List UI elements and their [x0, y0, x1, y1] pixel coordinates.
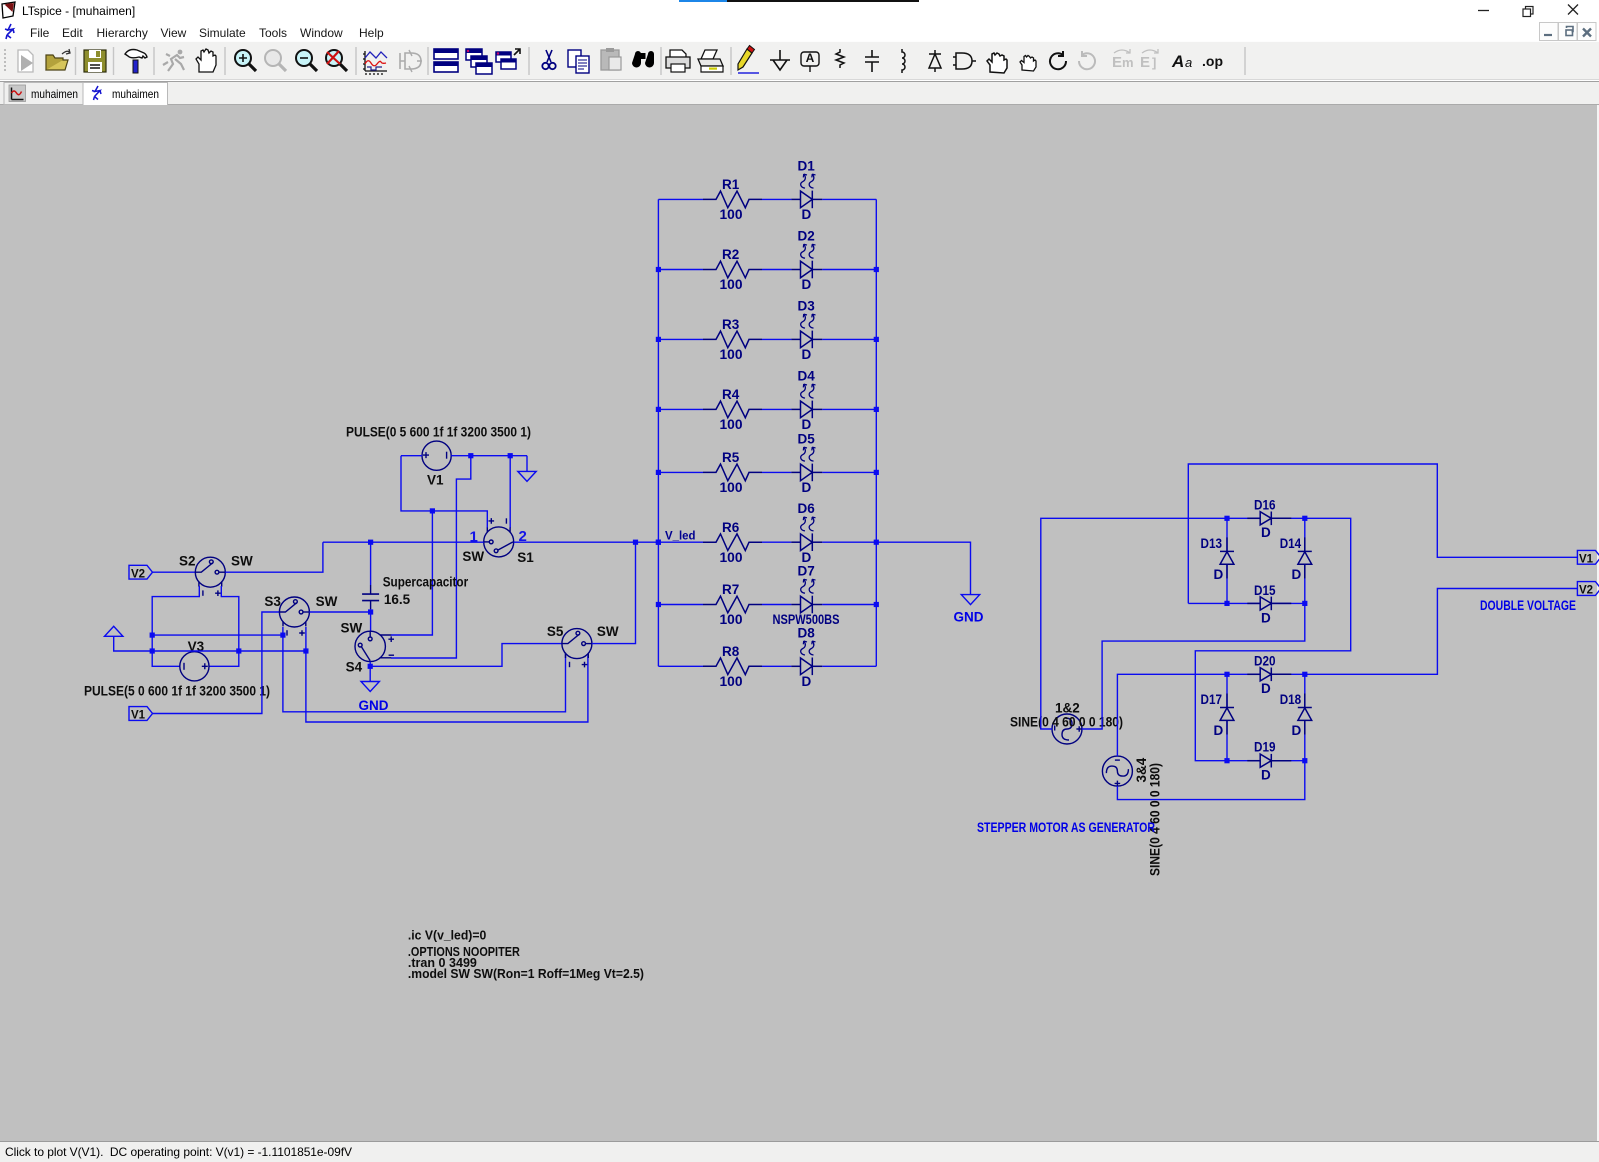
wire sine2 to D20: [1117, 674, 1227, 756]
resistor R6: [703, 534, 762, 551]
svg-text:V1: V1: [131, 710, 146, 722]
wire row1 b: [762, 198, 791, 200]
wire row6 b: [762, 541, 791, 543]
wire S2 ctrl+ to V3: [209, 586, 239, 666]
ground flag up: [105, 626, 123, 636]
wire D19 row b: [1271, 760, 1305, 762]
wire bus left: [323, 541, 484, 543]
svg-text:SW: SW: [316, 594, 338, 609]
svg-text:S2: S2: [179, 554, 196, 569]
switch S1: [484, 518, 514, 557]
wire row2 c: [822, 269, 876, 271]
node S5 tap: [633, 540, 638, 545]
ladder right rail: [875, 199, 877, 666]
wire row5 a: [658, 471, 703, 473]
node bridge2: [1224, 672, 1229, 677]
svg-text:D: D: [802, 674, 812, 689]
svg-text:D: D: [802, 480, 812, 495]
node rail R5: [874, 470, 879, 475]
svg-text:V3: V3: [188, 639, 205, 654]
wire row2 a: [658, 269, 703, 271]
svg-text:100: 100: [720, 207, 743, 222]
svg-text:100: 100: [720, 674, 743, 689]
node: [150, 633, 155, 638]
node bridge1: [1302, 601, 1307, 606]
svg-text:100: 100: [720, 347, 743, 362]
wire bridge1 to bridge2: [1195, 518, 1350, 760]
svg-text:D4: D4: [798, 368, 816, 383]
ground flag top: [518, 471, 536, 481]
wire D16 row a: [1227, 517, 1260, 519]
svg-text:D7: D7: [798, 564, 815, 579]
voltage source V3: [180, 652, 209, 681]
node rail L2: [656, 267, 661, 272]
svg-text:D6: D6: [798, 501, 816, 516]
node supercap top: [368, 540, 373, 545]
wire D17 bottom: [1226, 720, 1228, 761]
svg-text:D3: D3: [798, 298, 816, 313]
svg-text:1&2: 1&2: [1055, 701, 1080, 716]
svg-text:D5: D5: [798, 431, 816, 446]
wire D14 bottom: [1304, 564, 1306, 603]
svg-text:S4: S4: [346, 659, 363, 674]
wire D20 row b: [1271, 673, 1305, 675]
node cap tap: [368, 609, 373, 614]
svg-text:16.5: 16.5: [384, 592, 411, 607]
wire V1 left: [401, 455, 422, 457]
node rail L4: [656, 407, 661, 412]
svg-text:D: D: [802, 277, 812, 292]
node bridge1: [1224, 601, 1229, 606]
wire sine2 to D19: [1117, 761, 1304, 800]
LED D3: [791, 314, 822, 348]
diode D14: [1298, 537, 1312, 578]
node bridge2: [1224, 758, 1229, 763]
node rail R3: [874, 337, 879, 342]
svg-text:R7: R7: [722, 582, 739, 597]
port V1 left: [129, 707, 153, 721]
wire row8 c: [822, 665, 876, 667]
wire row7 a: [658, 604, 703, 606]
svg-text:D18: D18: [1280, 692, 1302, 707]
node rail R4: [874, 407, 879, 412]
svg-text:S5: S5: [547, 624, 564, 639]
ground flag main: [961, 595, 979, 605]
wire S2 ctrl- to V3: [152, 586, 199, 666]
node rail L3: [656, 337, 661, 342]
wire D18 bottom: [1304, 720, 1306, 761]
svg-text:SW: SW: [341, 620, 363, 635]
wire row6 c: [822, 541, 876, 543]
wire row4 c: [822, 408, 876, 410]
node bridge1: [1224, 516, 1229, 521]
wire row5 c: [822, 471, 876, 473]
wire row3 b: [762, 338, 791, 340]
LED D1: [791, 174, 822, 208]
node: [468, 453, 473, 458]
svg-text:D: D: [802, 207, 812, 222]
wire row6 a: [658, 541, 703, 543]
svg-text:D2: D2: [798, 229, 815, 244]
resistor R1: [703, 191, 762, 208]
svg-text:100: 100: [720, 612, 743, 627]
port V1 right: [1577, 550, 1599, 564]
wire row1 a: [658, 198, 703, 200]
svg-text:GND: GND: [954, 610, 984, 625]
port V2: [129, 565, 153, 579]
diode D19: [1247, 754, 1291, 768]
svg-text:V1: V1: [427, 473, 444, 488]
svg-text:D: D: [1292, 567, 1302, 582]
wire V2 to S2: [153, 571, 196, 573]
diode D16: [1247, 512, 1291, 526]
svg-text:D: D: [1261, 525, 1271, 540]
svg-text:D17: D17: [1201, 692, 1223, 707]
node rail L5: [656, 470, 661, 475]
svg-text:SINE(0 4 60 0 0 180): SINE(0 4 60 0 0 180): [1010, 715, 1123, 730]
wire row3 a: [658, 338, 703, 340]
LED D5: [791, 447, 822, 481]
node: [150, 648, 155, 653]
wire cap top: [370, 542, 372, 585]
svg-text:STEPPER MOTOR AS GENERATOR: STEPPER MOTOR AS GENERATOR: [977, 820, 1155, 835]
wire S4 to S5: [370, 644, 562, 667]
node: [508, 453, 513, 458]
svg-text:PULSE(5 0 600 1f 1f 3200 3500: PULSE(5 0 600 1f 1f 3200 3500 1): [84, 684, 270, 699]
wire row7 c: [822, 604, 876, 606]
svg-text:R1: R1: [722, 177, 740, 192]
wire row4 a: [658, 408, 703, 410]
port V2 right: [1577, 582, 1599, 596]
node S4+ tap: [430, 508, 435, 513]
wire V1+ to S1 ctrl: [401, 456, 487, 528]
switch S2: [195, 557, 225, 596]
node rail R6: [874, 540, 879, 545]
LED D8: [791, 641, 822, 675]
wire row8 b: [762, 665, 791, 667]
svg-text:R3: R3: [722, 317, 740, 332]
svg-text:SW: SW: [231, 554, 253, 569]
diode D17: [1220, 694, 1234, 735]
svg-text:R6: R6: [722, 520, 740, 535]
svg-text:V1: V1: [1579, 553, 1594, 565]
LED D4: [791, 384, 822, 418]
sine source 3&4: [1102, 756, 1132, 786]
wire D13 bottom: [1226, 564, 1228, 603]
node rail R2: [874, 267, 879, 272]
svg-text:D: D: [802, 347, 812, 362]
svg-text:R5: R5: [722, 450, 740, 465]
wire V1 to S3: [153, 612, 280, 714]
wire D14 top: [1304, 518, 1306, 551]
svg-text:R4: R4: [722, 387, 740, 402]
LED D2: [791, 244, 822, 278]
wire S3+ to S5+: [306, 627, 588, 722]
wire D13 top: [1226, 518, 1228, 551]
svg-text:D8: D8: [798, 625, 816, 640]
svg-text:D16: D16: [1254, 497, 1276, 512]
svg-text:100: 100: [720, 550, 743, 565]
diode D20: [1247, 668, 1291, 682]
svg-text:D20: D20: [1254, 653, 1276, 668]
node: [303, 648, 308, 653]
wire flag rail: [114, 636, 306, 651]
svg-text:D: D: [1261, 768, 1271, 783]
svg-text:V_led: V_led: [665, 531, 696, 543]
node V_led rail: [656, 540, 661, 545]
diode D18: [1298, 694, 1312, 735]
wire row8 a: [658, 665, 703, 667]
switch S5: [562, 629, 592, 668]
resistor R8: [703, 658, 762, 675]
resistor R2: [703, 261, 762, 278]
wire D16 row b: [1271, 517, 1305, 519]
svg-text:D19: D19: [1254, 740, 1276, 755]
svg-text:D: D: [1214, 567, 1224, 582]
LED D6: [791, 517, 822, 551]
svg-text:100: 100: [720, 480, 743, 495]
wire V1 right: [451, 455, 527, 457]
sine source 1&2: [1052, 714, 1082, 744]
switch S4: [355, 631, 394, 661]
wire row1 c: [822, 198, 876, 200]
svg-text:.model SW SW(Ron=1 Roff=1Meg V: .model SW SW(Ron=1 Roff=1Meg Vt=2.5): [408, 967, 644, 981]
wire row7 b: [762, 604, 791, 606]
wire D20 row a: [1227, 673, 1260, 675]
wire to S4 ctrl+: [391, 511, 432, 635]
diode D15: [1247, 597, 1291, 611]
node rail L6: [656, 540, 661, 545]
svg-text:.ic V(v_led)=0: .ic V(v_led)=0: [408, 929, 486, 943]
wire gnd stem: [526, 456, 528, 472]
ground flag S4: [361, 682, 379, 692]
wire D18 top: [1304, 674, 1306, 707]
resistor R4: [703, 401, 762, 418]
svg-text:1: 1: [470, 529, 478, 546]
svg-text:D14: D14: [1280, 536, 1302, 551]
wire gnd stem2: [369, 666, 371, 681]
diode D13: [1220, 537, 1234, 578]
wire bridge2 out V2: [1305, 589, 1578, 675]
node S4 out: [368, 664, 373, 669]
node: [236, 648, 241, 653]
node bridge1: [1302, 516, 1307, 521]
wire S3 to cap: [309, 611, 370, 613]
svg-text:S1: S1: [517, 550, 534, 565]
switch S3: [279, 597, 309, 636]
wire sine1 to D15: [1082, 603, 1305, 729]
svg-text:S3: S3: [264, 594, 281, 609]
node: [280, 633, 285, 638]
svg-text:D15: D15: [1254, 583, 1276, 598]
wire S3- to S5-: [283, 627, 566, 712]
wire ctrl rail2: [152, 634, 283, 636]
capacitor supercap 16.5: [362, 594, 379, 601]
svg-text:D: D: [1261, 681, 1271, 696]
svg-text:D: D: [1292, 723, 1302, 738]
resistor R5: [703, 464, 762, 481]
wire to S1 ctrl-: [509, 456, 511, 528]
voltage source V1: [422, 441, 451, 470]
node bridge2: [1302, 758, 1307, 763]
wire D17 top: [1226, 674, 1228, 707]
wire D15 row b: [1271, 602, 1305, 604]
resistor R3: [703, 331, 762, 348]
wire D15 row left: [1188, 602, 1227, 604]
svg-text:D: D: [802, 417, 812, 432]
resistor R7: [703, 596, 762, 613]
wire row5 b: [762, 471, 791, 473]
wire sine1 to D16: [1041, 518, 1227, 729]
node rail R7: [874, 602, 879, 607]
wire S4 bottom: [369, 662, 371, 667]
wire bridge1 top out: [1188, 464, 1577, 603]
svg-text:D13: D13: [1201, 536, 1223, 551]
svg-text:D: D: [1214, 723, 1224, 738]
wire row2 b: [762, 269, 791, 271]
svg-text:PULSE(0 5 600 1f 1f 3200 3500: PULSE(0 5 600 1f 1f 3200 3500 1): [346, 425, 531, 440]
svg-text:DOUBLE VOLTAGE: DOUBLE VOLTAGE: [1480, 598, 1576, 613]
wire D19 row a: [1227, 760, 1260, 762]
svg-text:D: D: [1261, 611, 1271, 626]
svg-text:R2: R2: [722, 247, 739, 262]
svg-text:R8: R8: [722, 644, 740, 659]
wire row3 c: [822, 338, 876, 340]
svg-text:V2: V2: [131, 568, 145, 580]
svg-text:GND: GND: [359, 698, 389, 713]
svg-text:SW: SW: [597, 624, 619, 639]
svg-text:Supercapacitor: Supercapacitor: [383, 574, 469, 589]
LED D7: [791, 579, 822, 613]
svg-text:SW: SW: [462, 549, 484, 564]
wire S2 to bus: [225, 542, 323, 572]
svg-text:100: 100: [720, 417, 743, 432]
wire bus right: [514, 541, 659, 543]
svg-text:V2: V2: [1579, 585, 1593, 597]
ladder left rail: [657, 199, 659, 666]
wire to S4 ctrl-: [391, 456, 471, 658]
wire row4 b: [762, 408, 791, 410]
svg-text:D1: D1: [798, 158, 816, 173]
node rail L7: [656, 602, 661, 607]
wire to gnd: [876, 542, 970, 594]
wire S5 to bus: [592, 542, 636, 643]
svg-text:100: 100: [720, 277, 743, 292]
overlay bar: [679, 0, 727, 2]
wire cap bottom: [370, 609, 372, 631]
node bridge2: [1302, 672, 1307, 677]
wire D15 row a: [1227, 602, 1260, 604]
